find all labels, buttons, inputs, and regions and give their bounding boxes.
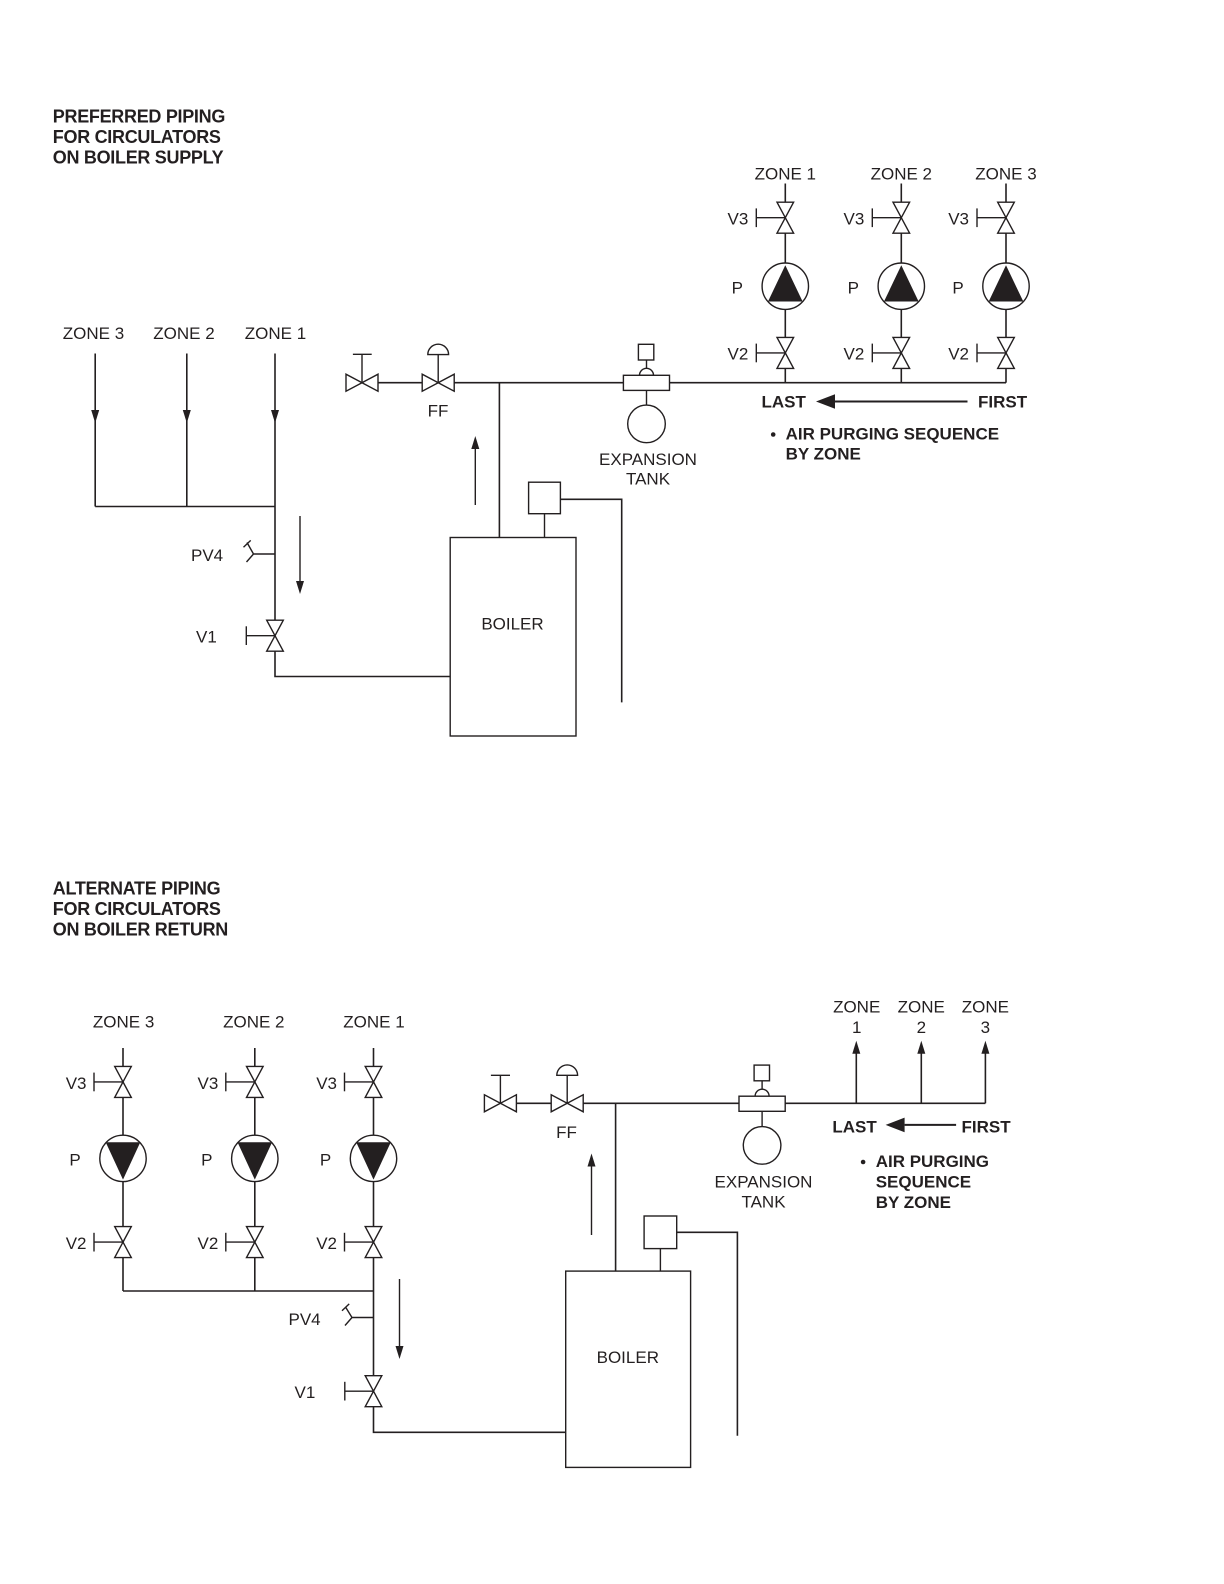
wire: V3 to pump zone 3 [122, 1097, 124, 1135]
pump P zone 1 [762, 263, 808, 309]
svg-text:TANK: TANK [741, 1193, 786, 1212]
wire: V3 to pump zone 1 [784, 233, 786, 263]
wire: pump to V2 zone 1 [784, 309, 786, 337]
wire: zone 3 return drop [94, 354, 96, 507]
wire: V3 to pump zone 1 [373, 1097, 375, 1135]
wire: supply main separator to zone 3 [670, 382, 1007, 384]
wire: zone 1 return drop [274, 354, 276, 507]
valve V2 zone 3 [998, 337, 1015, 353]
wire: zone 2 return drop [186, 354, 188, 507]
svg-text:V3: V3 [66, 1074, 87, 1093]
svg-text:LAST: LAST [832, 1118, 877, 1137]
wire: V2 to return manifold zone 3 [122, 1258, 124, 1291]
air separator body [640, 368, 654, 375]
svg-text:BY ZONE: BY ZONE [876, 1193, 951, 1212]
wire: pump to V2 zone 2 [900, 309, 902, 337]
pump P zone 2 [232, 1135, 278, 1181]
svg-text:V2: V2 [948, 345, 969, 364]
svg-text:ZONE 2: ZONE 2 [223, 1012, 284, 1031]
wire: supply main FF to air separator [583, 1102, 739, 1104]
valve V1 [365, 1376, 382, 1392]
arrow: purge direction LAST to FIRST [816, 394, 835, 409]
wire: V3 to pump zone 3 [1005, 233, 1007, 263]
svg-text:V3: V3 [198, 1074, 219, 1093]
wire: return manifold [123, 1290, 374, 1292]
svg-text:AIR PURGING: AIR PURGING [876, 1152, 989, 1171]
svg-text:FF: FF [556, 1123, 577, 1142]
arrowhead: zone 2 flow down [183, 410, 191, 423]
svg-text:ON BOILER SUPPLY: ON BOILER SUPPLY [53, 148, 224, 168]
svg-text:ZONE: ZONE [833, 997, 880, 1016]
svg-text:ZONE: ZONE [898, 997, 945, 1016]
svg-text:ZONE 3: ZONE 3 [63, 324, 124, 343]
purge valve PV4 symbol [342, 1304, 374, 1326]
valve V3 zone 1 [777, 202, 794, 218]
svg-text:EXPANSION: EXPANSION [715, 1172, 813, 1191]
wire: V1 to boiler return [374, 1407, 566, 1433]
air vent on separator [638, 344, 653, 360]
relief valve box on boiler [644, 1216, 677, 1249]
svg-text:P: P [320, 1151, 331, 1170]
valve V3 zone 2 [247, 1066, 264, 1082]
svg-text:V1: V1 [295, 1383, 316, 1402]
svg-text:BY ZONE: BY ZONE [786, 445, 861, 464]
valve V3 zone 2 [893, 202, 910, 218]
svg-text:FIRST: FIRST [962, 1118, 1012, 1137]
arrow: flow down beside drop pipe [299, 516, 301, 583]
bullet [771, 432, 776, 437]
svg-text:V2: V2 [316, 1234, 337, 1253]
wire: V2 to supply main zone 2 [900, 368, 902, 382]
svg-text:V2: V2 [66, 1234, 87, 1253]
wire: V1 to boiler return [275, 651, 450, 676]
wire: V2 down through manifold to V1 [373, 1258, 375, 1376]
valve V2 zone 1 [365, 1227, 382, 1243]
pump P zone 3 [983, 263, 1029, 309]
svg-text:AIR PURGING SEQUENCE: AIR PURGING SEQUENCE [786, 424, 999, 443]
svg-text:FIRST: FIRST [978, 393, 1028, 412]
arrow: zone 3 supply up at main end [984, 1052, 986, 1103]
arrow: purge direction LAST to FIRST [886, 1118, 905, 1133]
arrow: flow down beside drop pipe [399, 1279, 401, 1348]
valve V2 zone 1 [777, 337, 794, 353]
wire: supply main separator to zone 3 riser [785, 1102, 985, 1104]
arrowhead: zone 3 flow down [91, 410, 99, 423]
wire: manifold drop to V1 [274, 507, 276, 621]
svg-text:V3: V3 [844, 210, 865, 229]
gate valve with T-handle on supply main [484, 1095, 500, 1112]
svg-text:P: P [848, 278, 859, 297]
svg-text:ALTERNATE PIPING: ALTERNATE PIPING [53, 879, 221, 899]
arrow: flow up beside riser [591, 1166, 593, 1235]
pump P zone 3 [100, 1135, 146, 1181]
valve V3 zone 1 [365, 1066, 382, 1082]
svg-text:ZONE 2: ZONE 2 [153, 324, 214, 343]
air separator body [755, 1089, 769, 1096]
valve V2 zone 2 [893, 337, 910, 353]
svg-text:TANK: TANK [626, 470, 671, 489]
expansion tank [761, 1111, 763, 1126]
air vent on separator [754, 1065, 769, 1081]
svg-text:FOR CIRCULATORS: FOR CIRCULATORS [53, 899, 221, 919]
gate valve with T-handle on supply main [346, 374, 362, 391]
svg-text:ZONE 1: ZONE 1 [343, 1012, 404, 1031]
bullet [861, 1160, 866, 1165]
svg-text:2: 2 [917, 1018, 926, 1037]
wire: zone 2 stub [900, 184, 902, 203]
arrowhead: zone 1 flow down [271, 410, 279, 423]
valve V2 zone 2 [247, 1227, 264, 1243]
svg-text:SEQUENCE: SEQUENCE [876, 1172, 971, 1191]
svg-text:P: P [732, 278, 743, 297]
arrow: zone 2 supply up [920, 1052, 922, 1103]
svg-text:LAST: LAST [762, 393, 807, 412]
wire: relief discharge pipe [560, 499, 621, 702]
svg-text:P: P [69, 1151, 80, 1170]
arrow: flow up beside riser [474, 447, 476, 505]
wire: pump to V2 zone 1 [373, 1182, 375, 1227]
svg-text:ZONE: ZONE [962, 997, 1009, 1016]
valve V3 zone 3 [115, 1066, 132, 1082]
wire: between gate valve and FF valve [516, 1102, 551, 1104]
svg-text:FOR CIRCULATORS: FOR CIRCULATORS [53, 127, 221, 147]
svg-text:BOILER: BOILER [597, 1348, 659, 1367]
pump P zone 2 [878, 263, 924, 309]
wire: V2 to return manifold zone 2 [254, 1258, 256, 1291]
svg-text:ZONE 3: ZONE 3 [93, 1012, 154, 1031]
purge valve PV4 symbol [244, 540, 276, 562]
wire: supply main FF to air separator [454, 382, 623, 384]
svg-text:ZONE 3: ZONE 3 [975, 164, 1036, 183]
wire: between gate valve and FF valve [378, 382, 422, 384]
svg-text:P: P [952, 278, 963, 297]
svg-text:BOILER: BOILER [481, 615, 543, 634]
svg-text:V3: V3 [316, 1074, 337, 1093]
wire: pump to V2 zone 3 [122, 1182, 124, 1227]
wire: pump to V2 zone 2 [254, 1182, 256, 1227]
wire: V3 to pump zone 2 [900, 233, 902, 263]
svg-text:1: 1 [852, 1018, 861, 1037]
svg-text:3: 3 [981, 1018, 990, 1037]
svg-text:V2: V2 [844, 345, 865, 364]
boiler (top diagram) [450, 538, 576, 737]
wire: zone 1 stub [373, 1048, 375, 1066]
expansion tank [646, 390, 648, 405]
svg-text:V2: V2 [198, 1234, 219, 1253]
svg-text:FF: FF [428, 401, 449, 420]
svg-text:ON BOILER RETURN: ON BOILER RETURN [53, 920, 228, 940]
svg-text:EXPANSION: EXPANSION [599, 450, 697, 469]
wire: boiler supply riser [498, 383, 500, 538]
relief valve box on boiler [529, 482, 561, 514]
valve V1 [267, 620, 284, 636]
svg-text:V2: V2 [728, 345, 749, 364]
valve V3 zone 3 [998, 202, 1015, 218]
svg-text:PV4: PV4 [289, 1310, 321, 1329]
svg-text:V1: V1 [196, 627, 217, 646]
wire: relief discharge pipe [677, 1232, 738, 1436]
fill valve FF [551, 1095, 567, 1112]
wire: zone 3 stub [1005, 184, 1007, 203]
svg-text:ZONE 2: ZONE 2 [871, 164, 932, 183]
svg-text:V3: V3 [728, 210, 749, 229]
arrow: zone 1 supply up [855, 1052, 857, 1103]
wire: V2 to supply main zone 3 [1005, 368, 1007, 382]
wire: V3 to pump zone 2 [254, 1097, 256, 1135]
wire: return manifold [95, 506, 275, 508]
svg-text:PV4: PV4 [191, 546, 223, 565]
wire: zone 1 stub [784, 184, 786, 203]
svg-text:PREFERRED PIPING: PREFERRED PIPING [53, 107, 225, 127]
wire: zone 2 stub [254, 1048, 256, 1066]
svg-text:ZONE 1: ZONE 1 [755, 164, 816, 183]
fill valve FF [422, 374, 438, 391]
pump P zone 1 [350, 1135, 396, 1181]
valve V2 zone 3 [115, 1227, 132, 1243]
wire: pump to V2 zone 3 [1005, 309, 1007, 337]
wire: boiler supply riser [615, 1103, 617, 1271]
wire: zone 3 stub [122, 1048, 124, 1066]
svg-text:ZONE 1: ZONE 1 [245, 324, 306, 343]
wire: V2 to supply main zone 1 [784, 368, 786, 382]
boiler (bottom diagram) [566, 1271, 691, 1467]
svg-text:V3: V3 [948, 210, 969, 229]
svg-text:P: P [201, 1151, 212, 1170]
